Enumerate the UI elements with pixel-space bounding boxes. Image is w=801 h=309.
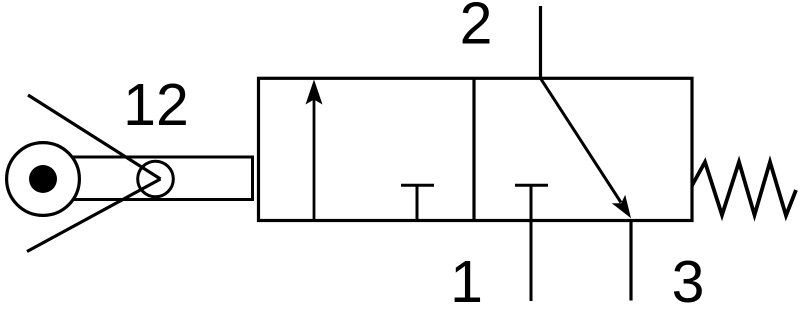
- roller outer circle: [7, 143, 80, 216]
- svg-text:2: 2: [460, 0, 493, 57]
- wire port 2 line: [539, 6, 542, 80]
- lever arm upper: [28, 95, 161, 179]
- return spring: [692, 162, 796, 216]
- flow path up arrow shaft: [313, 98, 316, 221]
- lever pivot circle: [138, 161, 174, 197]
- plunger rod upper line: [43, 156, 253, 159]
- diagonal flow arrow head: [612, 195, 631, 219]
- svg-text:3: 3: [672, 249, 705, 309]
- valve body frame: [259, 78, 693, 220]
- roller axle dot: [29, 165, 57, 193]
- plunger end cap: [251, 156, 254, 202]
- blocked port T right chamber with port 1 stem: [515, 185, 548, 301]
- blocked port T left chamber: [401, 185, 434, 220]
- divider between chambers: [472, 78, 475, 220]
- svg-text:12: 12: [123, 72, 189, 138]
- plunger rod lower line: [43, 198, 253, 201]
- wire port 3 line: [629, 221, 632, 301]
- flow path up arrow head: [306, 80, 323, 105]
- lever arm lower: [27, 179, 161, 252]
- diagonal flow arrow shaft: [541, 78, 622, 202]
- svg-text:1: 1: [450, 249, 483, 309]
